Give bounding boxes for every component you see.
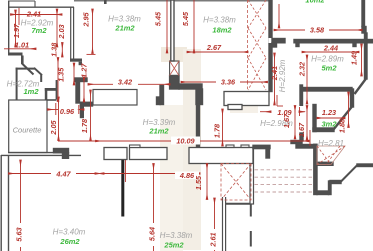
- wall blob: [170, 76, 179, 90]
- wall vert x300: [300, 85, 303, 105]
- wall stub: [34, 1, 36, 7]
- black door line: [121, 160, 124, 217]
- svg-text:21m2: 21m2: [148, 127, 169, 136]
- svg-text:1.78: 1.78: [213, 123, 222, 138]
- band A: [104, 148, 127, 160]
- dim 10.09 line: [58, 140, 309, 142]
- stair side wall: [250, 148, 254, 205]
- L piece v: [63, 153, 69, 159]
- svg-text:H=2.92m: H=2.92m: [278, 59, 287, 92]
- svg-text:H=3.38m: H=3.38m: [108, 15, 141, 24]
- svg-text:H=2.89m: H=2.89m: [311, 55, 344, 64]
- wall top room7: [8, 6, 74, 8]
- svg-text:1.97: 1.97: [12, 23, 21, 38]
- dim 4.86 line: [95, 173, 200, 175]
- svg-text:5.45: 5.45: [154, 11, 163, 26]
- svg-text:5m2: 5m2: [321, 64, 337, 73]
- wall corner vert: [21, 56, 24, 65]
- wall corner below stem v: [81, 102, 84, 117]
- dim 1.49 line: [361, 44, 363, 76]
- wall L small v: [45, 88, 48, 100]
- dim 2.05 line: [58, 97, 60, 141]
- wall diagonal outer: [22, 64, 34, 75]
- bottom left outer a: [0, 155, 2, 251]
- svg-text:1.67: 1.67: [282, 113, 291, 128]
- shaft right wall: [269, 0, 272, 92]
- wall L small h: [45, 88, 56, 91]
- dim 1.38 line: [61, 43, 63, 58]
- slab C bump1: [226, 145, 234, 148]
- dim 4.47 line: [9, 173, 105, 175]
- right outer wall top: [362, 0, 365, 27]
- svg-text:H=3.38m: H=3.38m: [203, 16, 236, 25]
- svg-text:18m2: 18m2: [212, 26, 232, 35]
- dim 1.88 line: [348, 92, 350, 128]
- wall L cap: [75, 78, 87, 82]
- wall 1m2 left: [16, 68, 18, 100]
- wall room7 right double: [70, 7, 72, 59]
- courette bottom ext: [8, 152, 69, 154]
- entry top wall: [296, 145, 317, 149]
- dim 2.95 line: [92, 9, 94, 54]
- svg-text:2.05: 2.05: [49, 119, 58, 135]
- 3m2 chamfer: [334, 107, 353, 130]
- dim 2.61 line: [214, 198, 216, 251]
- dim 5.45b line: [193, 0, 195, 53]
- red ext: [124, 160, 126, 182]
- wall stub top: [104, 0, 107, 4]
- svg-text:Courette: Courette: [13, 126, 42, 135]
- wall divider 21/18 double: [171, 0, 174, 61]
- bottom left top wall: [1, 154, 81, 156]
- ledge wall: [330, 181, 341, 184]
- shaft door gap: [269, 38, 273, 43]
- svg-text:7m2: 7m2: [31, 26, 47, 35]
- svg-text:1.27: 1.27: [80, 63, 89, 78]
- wall top 21m2: [74, 0, 270, 2]
- svg-text:1.55: 1.55: [194, 175, 203, 190]
- dim 1.35 line: [57, 58, 59, 102]
- label 4.86: [175, 172, 199, 180]
- dim 1.23 line: [317, 117, 345, 119]
- wall 1m2 right: [40, 75, 42, 82]
- band B bump: [130, 145, 141, 148]
- svg-text:21m2: 21m2: [114, 24, 135, 33]
- dim 5.45a line: [166, 0, 168, 53]
- slab C: [189, 148, 253, 164]
- dim 1.97 line: [15, 10, 17, 47]
- entry hatch polygon: [317, 146, 345, 165]
- watermark: [160, 47, 258, 251]
- svg-text:5.63: 5.63: [15, 227, 24, 241]
- window box hatched: [170, 61, 179, 76]
- bottom left outer b: [8, 156, 10, 251]
- wall L stem: [76, 82, 80, 104]
- wall vertical mid: [197, 105, 200, 148]
- svg-text:4.47: 4.47: [55, 170, 71, 179]
- entry T: [300, 133, 303, 141]
- dim 1.09 line left: [260, 111, 271, 113]
- closet rect: [93, 90, 137, 106]
- 3m2 bottom wall: [313, 128, 334, 132]
- jamb a: [296, 43, 299, 47]
- wall balcony top: [8, 0, 35, 2]
- svg-text:H=2.81: H=2.81: [318, 139, 344, 148]
- svg-text:10.09: 10.09: [176, 137, 195, 146]
- svg-text:1.67: 1.67: [297, 122, 306, 137]
- red L mark: [276, 95, 278, 106]
- stair hatch rect: [221, 164, 251, 201]
- right outer wall: [365, 33, 368, 79]
- dim 1.67a line: [294, 106, 296, 140]
- wall diagonal chamfer: [34, 68, 42, 75]
- right ledge: [357, 164, 373, 167]
- band B: [130, 148, 168, 160]
- wall right of 1m2: [56, 80, 58, 100]
- svg-text:3.58: 3.58: [310, 26, 325, 35]
- wall left outer: [8, 1, 10, 55]
- dim 5.63 line: [20, 160, 22, 251]
- svg-text:3.42: 3.42: [118, 78, 132, 87]
- chamfer top right: [355, 79, 366, 94]
- red hatches and dashed: [170, 0, 345, 200]
- svg-text:2.67: 2.67: [206, 43, 222, 52]
- entry wall: [291, 141, 302, 144]
- jamb b: [353, 43, 356, 47]
- shaft X hatch: [248, 0, 266, 28]
- wall 1m2 top: [16, 68, 35, 70]
- svg-text:1.38: 1.38: [50, 42, 59, 57]
- svg-text:1.49: 1.49: [350, 50, 359, 65]
- wall courette top ext: [47, 99, 57, 101]
- duct top: [226, 203, 251, 205]
- entry polygon bottom wall: [317, 162, 333, 165]
- wall room7 corner: [70, 59, 82, 62]
- dim 0.96 line: [48, 109, 59, 111]
- L piece h: [54, 149, 69, 153]
- dim 1.78R line: [222, 109, 224, 146]
- label 2.61: [210, 229, 219, 250]
- wall piece right of closet: [160, 86, 164, 105]
- courette box: [9, 100, 47, 153]
- label 5.64: [149, 223, 158, 246]
- dim 1.67b line: [306, 106, 308, 141]
- dim 2.41v line: [274, 53, 276, 105]
- svg-text:26m2: 26m2: [59, 237, 80, 246]
- svg-text:1.23: 1.23: [322, 108, 336, 117]
- label 10.09: [171, 137, 200, 145]
- label 5.63: [16, 223, 25, 247]
- svg-text:3.36: 3.36: [221, 78, 236, 87]
- svg-text:H=3.40m: H=3.40m: [53, 228, 86, 237]
- dim 1.01 line: [4, 48, 36, 50]
- svg-text:2.32: 2.32: [298, 62, 307, 77]
- dim 2.44 line: [302, 51, 359, 53]
- label 4.47: [51, 170, 76, 178]
- svg-text:5.64: 5.64: [148, 227, 157, 241]
- svg-text:2.41: 2.41: [26, 10, 41, 19]
- svg-text:2.95: 2.95: [82, 11, 91, 27]
- wall room7 bottom: [8, 53, 23, 56]
- 3m2 left wall: [313, 105, 316, 132]
- svg-text:4.86: 4.86: [179, 171, 195, 180]
- wall step: [196, 89, 203, 105]
- dim small top: [278, 4, 280, 28]
- svg-text:10m2: 10m2: [305, 0, 325, 5]
- duct right upper: [250, 204, 252, 217]
- wall arm: [179, 84, 202, 89]
- dim 3.36 line: [181, 81, 268, 83]
- svg-text:2.44: 2.44: [323, 44, 338, 53]
- label 3.42: [113, 78, 138, 85]
- arm stub down: [266, 149, 270, 158]
- 3m2 right wall: [351, 89, 354, 107]
- dim 3.42 line: [88, 83, 170, 85]
- gray dashed stair treads: [255, 170, 314, 192]
- dim 3.58 line: [274, 29, 362, 31]
- svg-text:1.88: 1.88: [338, 118, 347, 133]
- corner bits: [272, 39, 285, 43]
- svg-text:1m2: 1m2: [23, 87, 39, 96]
- svg-text:1.78: 1.78: [80, 118, 89, 133]
- duct wall b: [225, 197, 227, 251]
- svg-text:2.61: 2.61: [209, 232, 218, 247]
- slab C bump2: [241, 145, 249, 148]
- svg-text:0.96: 0.96: [60, 107, 75, 116]
- svg-text:2.03: 2.03: [57, 24, 66, 39]
- duct wall a: [222, 197, 224, 251]
- label 3.36: [216, 77, 240, 85]
- stairwell riser wall: [329, 181, 332, 195]
- 5m2 bottom wall: [301, 88, 352, 92]
- stairwell bottom wall: [317, 191, 329, 195]
- window X: [170, 61, 179, 76]
- dim 2.41 line: [11, 14, 63, 16]
- label 3.58: [305, 26, 329, 34]
- svg-text:1.35: 1.35: [56, 67, 65, 82]
- dim 1.55 line: [206, 164, 208, 200]
- dim 2.32 line: [306, 55, 308, 104]
- svg-text:1.01: 1.01: [15, 41, 29, 50]
- dim 1.27 line: [73, 63, 75, 85]
- svg-text:5.45: 5.45: [181, 11, 190, 26]
- dim 5.64 line: [153, 164, 155, 251]
- top right wall band: [294, 40, 373, 43]
- arm wall right: [253, 145, 270, 148]
- svg-text:25m2: 25m2: [163, 241, 184, 250]
- dim 1.78L line: [90, 90, 92, 141]
- dim 2.03 line: [56, 9, 58, 47]
- slab D: [224, 92, 269, 106]
- tick x310: [309, 130, 311, 146]
- duct right lower: [250, 231, 252, 247]
- stairwell left wall: [314, 144, 317, 194]
- big diagonal: [341, 165, 358, 182]
- shaft left dashed: [247, 0, 249, 82]
- dim 2.67 line: [187, 51, 248, 53]
- slab D notch: [228, 105, 242, 110]
- dim ext x84: [83, 77, 85, 102]
- wall corner below stem h: [81, 102, 93, 106]
- svg-text:H=3.38m: H=3.38m: [160, 231, 193, 240]
- dim 1.09 line right: [299, 111, 305, 113]
- svg-text:3m2: 3m2: [321, 120, 337, 129]
